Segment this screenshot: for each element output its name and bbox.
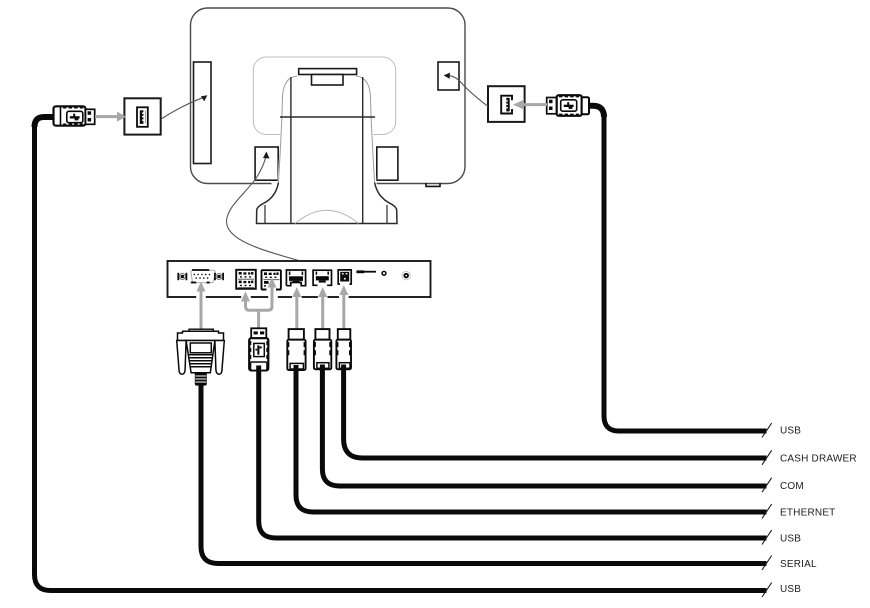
stand inner left line	[290, 77, 292, 224]
com plug	[314, 329, 331, 369]
cable ethernet	[296, 365, 767, 512]
left port slot	[194, 62, 212, 164]
right foot pad line	[386, 205, 388, 224]
left foot pad line	[264, 205, 266, 224]
stand lower outline	[257, 183, 398, 224]
curve box1 to left slot	[162, 98, 203, 119]
com port	[313, 270, 331, 285]
hinge line	[280, 116, 375, 118]
arrow P2 to box2	[513, 100, 547, 110]
box1 left usb port	[124, 98, 160, 134]
power jack	[402, 271, 410, 279]
stand inner right line	[362, 77, 364, 224]
curve panel to stand port	[226, 157, 298, 261]
arrow com	[318, 287, 327, 329]
usb port pair 1	[236, 270, 256, 289]
vga screw left	[178, 273, 186, 280]
svg-text:USB: USB	[780, 584, 801, 595]
stand upper outline left	[278, 76, 297, 183]
ethernet port	[286, 270, 305, 286]
svg-text:SERIAL: SERIAL	[780, 559, 817, 570]
arrow serial	[197, 282, 206, 329]
small circle	[382, 271, 386, 275]
cable end ticks	[762, 423, 772, 597]
mount recess	[253, 57, 395, 135]
serial db9 plug	[177, 329, 225, 385]
cable usb mid	[259, 366, 767, 539]
arrow ethernet	[292, 287, 301, 329]
svg-text:USB: USB	[780, 426, 801, 437]
cable serial	[201, 385, 767, 564]
usb port pair 2	[262, 270, 281, 289]
cable cash drawer	[344, 365, 767, 459]
svg-text:ETHERNET: ETHERNET	[780, 508, 836, 519]
card slot	[356, 270, 364, 273]
cash drawer port	[338, 270, 351, 284]
box2 right usb port	[488, 86, 525, 122]
curve box2 to right rect	[450, 76, 489, 107]
vga port	[191, 270, 215, 283]
io panel	[168, 261, 431, 297]
top plate bar	[299, 69, 357, 75]
cable usb right	[604, 116, 767, 431]
cable com	[322, 365, 766, 487]
cable arch	[295, 210, 359, 223]
arrow usb split	[241, 278, 277, 329]
svg-text:COM: COM	[780, 481, 804, 492]
right port rect	[438, 62, 459, 90]
arrow P1 to box1	[95, 112, 126, 122]
panel bottom gaps	[196, 296, 348, 299]
left stand port rect	[255, 147, 278, 180]
usb-a plug below panel	[249, 328, 268, 370]
svg-text:CASH DRAWER: CASH DRAWER	[780, 454, 857, 465]
monitor body	[191, 8, 466, 184]
vga screw right	[215, 273, 223, 280]
left usb plug P1	[35, 106, 95, 127]
ethernet plug	[287, 329, 305, 370]
right stand port rect	[377, 147, 398, 180]
bottom notch tab	[426, 183, 440, 186]
stand	[257, 76, 398, 224]
top plate block	[312, 75, 344, 86]
cash drawer plug	[336, 329, 351, 369]
cable usb bottom	[35, 126, 767, 591]
right usb plug P2	[547, 95, 604, 117]
arrow cash	[339, 285, 348, 329]
stand upper outline right	[356, 76, 375, 183]
svg-text:USB: USB	[780, 534, 801, 545]
